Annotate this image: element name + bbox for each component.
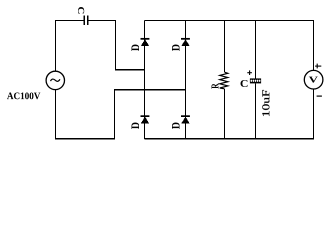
wire: voltmeter column bottom	[313, 89, 315, 139]
wire: bottom output rail	[145, 138, 315, 140]
diode D (bottom-left)	[141, 115, 150, 123]
minus mark of voltmeter	[317, 95, 322, 97]
label R	[212, 83, 219, 88]
wire: bridge left column	[144, 21, 146, 140]
label C (electrolytic)	[241, 80, 248, 87]
diode D (top-left)	[141, 38, 150, 46]
plus polarity mark of capacitor C	[247, 70, 252, 75]
wire: voltmeter column top	[313, 21, 315, 71]
wire: electrolytic capacitor column bottom	[255, 83, 257, 139]
wire: resistor column top	[224, 21, 226, 73]
wire: bridge right column	[185, 21, 187, 140]
label C (series capacitor)	[78, 7, 84, 14]
wire: resistor column bottom	[224, 89, 226, 139]
wire: AC source top to top-left rail to capacitor left plate	[56, 21, 85, 72]
wire: AC source bottom loop to bridge AC2 input	[56, 90, 186, 139]
wire: top output rail	[145, 20, 315, 22]
label D (top-right)	[172, 45, 180, 52]
plus mark of voltmeter	[315, 64, 321, 69]
label AC100V	[7, 93, 40, 100]
label D (bottom-right)	[172, 123, 180, 130]
wire: capacitor right plate to AC top input drop	[88, 21, 145, 70]
resistor R zigzag	[220, 72, 228, 89]
electrolytic capacitor C (10uF) symbol	[250, 78, 261, 83]
diode D (top-right)	[181, 38, 190, 46]
ac source AC100V	[46, 71, 64, 89]
label D (bottom-left)	[132, 123, 140, 130]
capacitor C (series coupling cap)	[84, 15, 88, 25]
diode D (bottom-right)	[181, 115, 190, 123]
label D (top-left)	[132, 45, 140, 52]
wire: electrolytic capacitor column top	[255, 21, 257, 79]
value label 10uF	[262, 90, 269, 116]
voltmeter V	[304, 70, 323, 89]
